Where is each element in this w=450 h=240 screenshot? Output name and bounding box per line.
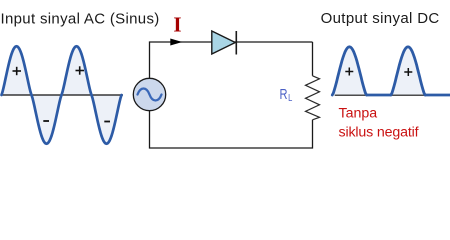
svg-text:R: R xyxy=(280,87,288,103)
svg-text:siklus negatif: siklus negatif xyxy=(339,125,419,141)
diode D1 cathode bar xyxy=(235,31,237,55)
svg-text:Tanpa: Tanpa xyxy=(339,106,378,122)
output axis segment under hump 1 xyxy=(335,94,367,96)
current arrow xyxy=(170,39,182,46)
output hump 1 fill xyxy=(332,47,366,95)
AC source sine symbol xyxy=(138,89,162,101)
output hump 1 stroke xyxy=(332,47,366,95)
svg-text:I: I xyxy=(173,13,181,37)
minus sign lobe 1 xyxy=(43,120,49,122)
input sine wave stroke xyxy=(2,46,122,143)
svg-text:Output sinyal DC: Output sinyal DC xyxy=(321,10,440,27)
diode D1 triangle xyxy=(212,31,236,54)
wire: top xyxy=(150,42,313,79)
output hump 2 stroke xyxy=(391,47,425,95)
plus sign output hump 2 xyxy=(404,68,412,76)
plus sign lobe 1 xyxy=(13,67,22,75)
output axis segment under hump 2 xyxy=(392,94,425,96)
AC source V1 circle xyxy=(133,78,165,110)
plus sign lobe 2 xyxy=(76,66,85,74)
resistor RL zigzag xyxy=(306,76,320,120)
input axis line xyxy=(2,94,123,96)
output baseline between humps xyxy=(367,94,392,97)
wire: resistor bottom to bottom xyxy=(150,111,313,148)
svg-text:L: L xyxy=(288,93,293,104)
wire: right top to resistor xyxy=(312,42,314,76)
input sine wave fill xyxy=(2,46,122,143)
minus sign lobe 2 xyxy=(104,121,110,123)
output baseline right xyxy=(425,94,450,97)
svg-text:Input sinyal AC (Sinus): Input sinyal AC (Sinus) xyxy=(1,11,160,28)
output hump 2 fill xyxy=(391,47,425,95)
plus sign output hump 1 xyxy=(345,68,353,76)
